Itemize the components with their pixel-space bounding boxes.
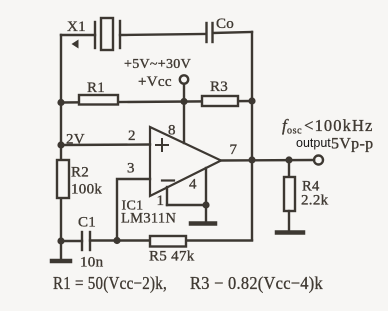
svg-text:R3: R3: [210, 79, 228, 95]
node Vcc junction: [180, 98, 187, 105]
wire R4 stem top: [288, 160, 290, 177]
node 2V junction: [57, 141, 64, 148]
svg-text:2.2k: 2.2k: [301, 193, 329, 209]
node pin7 junction: [248, 156, 255, 163]
wire left rail to C1: [61, 240, 82, 242]
wire pin1 to pin4 bottom: [167, 204, 206, 206]
svg-text:10n: 10n: [80, 255, 104, 271]
capacitor C1: [82, 232, 90, 250]
svg-text:output: output: [296, 136, 331, 150]
output terminal: [314, 156, 323, 165]
wire Co to right rail: [213, 32, 252, 33]
resistor R4: [284, 177, 295, 211]
wire bottom feedback horizontal: [90, 239, 252, 241]
svg-text:R2: R2: [71, 165, 89, 181]
svg-text:X1: X1: [67, 19, 86, 35]
svg-text:R3 − 0.82(Vcc−4)k: R3 − 0.82(Vcc−4)k: [190, 273, 323, 294]
svg-text:7: 7: [230, 142, 238, 158]
wire right vertical rail: [251, 32, 253, 240]
wire top-left horizontal to crystal: [61, 34, 95, 36]
svg-text:4: 4: [189, 177, 197, 193]
wire pin 1 down: [166, 187, 168, 205]
svg-text:2: 2: [128, 128, 136, 144]
node R1 left junction: [57, 99, 64, 106]
wire pin 4 down: [205, 168, 207, 205]
wire pin 2 input: [61, 143, 150, 146]
svg-text:2V: 2V: [66, 132, 85, 148]
polarity mark near X1: [72, 40, 79, 49]
resistor R3: [202, 96, 238, 106]
svg-text:+5V~+30V: +5V~+30V: [124, 57, 191, 72]
wire R1 R3 horizontal line: [61, 101, 252, 103]
svg-text:R1: R1: [87, 80, 105, 96]
node output junction: [285, 156, 292, 163]
wire crystal to Co: [120, 34, 206, 35]
node C1 left junction: [57, 237, 64, 244]
wire pin 8 stem: [183, 102, 185, 143]
ground R4: [277, 230, 303, 235]
svg-text:5Vp-p: 5Vp-p: [331, 136, 373, 153]
op-amp plus input sign: [156, 139, 168, 151]
svg-text:LM311N: LM311N: [121, 211, 176, 227]
resistor R2: [57, 160, 69, 198]
svg-text:R1 = 50(Vcc−2)k,: R1 = 50(Vcc−2)k,: [53, 273, 167, 294]
crystal X1: [95, 18, 120, 50]
wire pin 3 input elbow: [117, 179, 150, 241]
node ground junction: [202, 201, 209, 208]
svg-text:R5 47k: R5 47k: [149, 249, 195, 265]
capacitor Co: [207, 23, 213, 42]
resistor R5: [150, 236, 186, 247]
svg-text:+Vcc: +Vcc: [138, 74, 172, 90]
op-amp minus input sign: [162, 179, 174, 181]
svg-text:8: 8: [168, 123, 176, 139]
wire pin 7 output: [221, 159, 314, 162]
svg-text:Co: Co: [216, 16, 234, 32]
op-amp U1 triangle: [150, 127, 221, 196]
Vcc terminal: [180, 75, 188, 83]
wire left vertical rail: [60, 35, 62, 259]
resistor R1: [79, 95, 118, 105]
wire ground stem op-amp: [205, 205, 207, 222]
node pin3 C1 junction: [113, 237, 120, 244]
node R3 right junction: [248, 97, 255, 104]
svg-text:3: 3: [127, 161, 135, 177]
svg-text:100k: 100k: [71, 182, 102, 198]
ground left rail: [52, 259, 70, 264]
wire Vcc stem: [183, 84, 185, 102]
wire R4 stem bottom: [288, 211, 290, 231]
svg-text:1: 1: [157, 193, 165, 209]
svg-text:C1: C1: [78, 215, 96, 231]
ground op-amp: [191, 221, 215, 226]
